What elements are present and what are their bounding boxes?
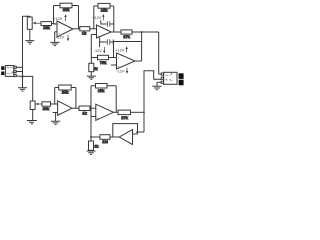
wire input vertical bus: [22, 16, 24, 87]
svg-text:+: +: [118, 65, 120, 69]
wire top channel to connector J2: [159, 32, 162, 74]
wire U6 feedback loop: [113, 124, 138, 137]
resistor R2 (U1 feedback): [54, 3, 79, 8]
svg-text:22k: 22k: [63, 7, 69, 12]
ground G2 (below P1): [25, 41, 34, 44]
svg-text:1k: 1k: [95, 145, 99, 149]
resistor R13: [91, 135, 110, 140]
wire R5 to output bus: [132, 31, 159, 33]
svg-text:27k: 27k: [123, 34, 129, 39]
svg-text:15k: 15k: [101, 8, 107, 13]
ground G9 (below R14): [87, 151, 96, 154]
op-amp U3: [111, 53, 135, 69]
wire J1 pin1 to input node: [16, 66, 22, 68]
op-amp U5: [91, 104, 113, 120]
wire U2 V- pin: [99, 38, 101, 48]
wire R8 to U4: [51, 103, 58, 105]
wire pot P1 bottom: [29, 29, 31, 40]
wire to pot P1 top: [23, 15, 30, 18]
wire U1 + input to ground: [54, 32, 56, 42]
svg-text:-: -: [129, 132, 130, 136]
ground G8 (U4 +): [51, 121, 60, 124]
svg-text:-: -: [98, 27, 99, 31]
svg-text:-12V: -12V: [56, 36, 64, 40]
wire feedback left leg U2: [93, 6, 95, 29]
label U3 V-: [117, 68, 129, 74]
svg-text:+: +: [59, 111, 61, 115]
svg-text:-: -: [59, 103, 60, 107]
ground G7 (below P2): [27, 121, 37, 124]
svg-text:-12V: -12V: [117, 70, 125, 74]
wire R3 to U2: [90, 28, 97, 30]
wire U6 output row: [110, 136, 119, 138]
wire U6 input from node C: [136, 131, 144, 133]
resistor R6: [91, 55, 116, 59]
svg-text:22k: 22k: [43, 25, 49, 30]
wire U1 output: [73, 28, 80, 30]
svg-text:+12V: +12V: [115, 48, 124, 52]
label U1 V-: [56, 35, 69, 42]
wire feedback right leg U5: [115, 86, 117, 113]
op-amp U4: [53, 101, 72, 116]
svg-text:20k: 20k: [43, 106, 49, 111]
label U1 V+: [53, 14, 66, 21]
resistor R5: [121, 30, 132, 34]
wire R10 to U5: [90, 107, 96, 109]
resistor R1: [41, 22, 52, 26]
wire J1 pin3: [16, 75, 22, 77]
connector J2 (output, right): [161, 72, 183, 85]
svg-text:1k: 1k: [82, 30, 86, 35]
potentiometer P2: [30, 101, 42, 110]
node D (junction): [90, 136, 92, 138]
wire feedback left leg U5 / bias bus: [90, 86, 92, 137]
potentiometer P1: [27, 17, 41, 29]
op-amp U6 (left pointing): [119, 130, 137, 145]
op-amp U2: [91, 25, 111, 38]
wire pot P2 feed: [23, 76, 33, 101]
svg-text:-: -: [58, 23, 59, 27]
svg-text:27k: 27k: [121, 115, 127, 120]
svg-text:75k: 75k: [100, 60, 106, 65]
node B (junction dot): [141, 31, 143, 33]
wire feedback right leg U4: [75, 88, 77, 109]
svg-text:-12V: -12V: [94, 49, 102, 53]
resistor R3: [80, 27, 90, 31]
resistor R10: [79, 106, 90, 111]
svg-text:-: -: [97, 107, 98, 111]
resistor R7 (to ground): [89, 63, 94, 76]
wire pot P2 bottom: [32, 110, 34, 121]
wire U2 + input bias bus: [90, 35, 92, 64]
svg-text:1k: 1k: [94, 67, 98, 71]
ground G3 (U1 +): [50, 42, 59, 45]
svg-text:+: +: [129, 140, 131, 144]
resistor R11 (U5 feedback): [91, 84, 116, 89]
resistor R14 (to ground): [89, 137, 94, 151]
svg-text:+12V: +12V: [53, 17, 62, 21]
wire U2 output: [111, 31, 121, 33]
wire U3 feedback top: [114, 41, 142, 43]
resistor R8: [42, 102, 51, 106]
svg-text:15k: 15k: [98, 88, 104, 93]
op-amp U1: [54, 21, 74, 37]
svg-text:-: -: [118, 56, 119, 60]
svg-text:1k: 1k: [82, 110, 86, 115]
resistor R12: [118, 110, 131, 115]
ground G6 (J2): [152, 86, 161, 89]
wire J2 pin3 to ground: [157, 82, 161, 86]
wire R12 to node C: [131, 111, 145, 113]
wire U3 feedback right leg: [141, 32, 143, 61]
wire feedback right leg U2: [113, 6, 115, 32]
wire U3 output row: [135, 60, 142, 62]
label U2 V+: [92, 14, 104, 20]
wire feedback left leg U1: [53, 6, 55, 24]
connector J1 (input, left): [1, 66, 16, 77]
resistor R4 (U2 feedback): [94, 3, 114, 8]
wire J1 pin2: [16, 71, 22, 73]
label U3 V+: [115, 46, 128, 52]
svg-text:1M: 1M: [102, 139, 108, 144]
node A (junction dot): [22, 76, 24, 78]
capacitor C1 (U2 V+ bypass): [101, 20, 114, 26]
node C (junction dot): [143, 112, 145, 114]
capacitor C2 (U2 V- bypass): [100, 39, 114, 44]
wire R1 to U1 inverting input: [52, 23, 58, 26]
label U2 V-: [94, 47, 106, 53]
wire U5 output: [113, 111, 118, 113]
wire U4 output: [72, 107, 79, 109]
ground G5 (below R7): [87, 76, 96, 79]
ground G1 (below input bus): [18, 88, 27, 91]
svg-text:20k: 20k: [62, 89, 68, 94]
wire U4 + to ground: [55, 113, 57, 122]
wire bottom channel vertical: [144, 71, 161, 132]
svg-text:+12V: +12V: [92, 16, 101, 20]
svg-text:+: +: [97, 116, 99, 120]
wire U3 feedback left leg: [113, 42, 115, 58]
resistor R9 (U4 feedback): [55, 85, 76, 90]
wire feedback right leg U1: [78, 6, 80, 29]
wire feedback left leg U4: [54, 88, 56, 105]
